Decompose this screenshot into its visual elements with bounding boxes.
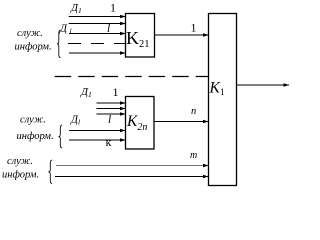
block K1 box (209, 14, 237, 186)
wire: K2n output to K1 (154, 121, 209, 123)
brace group 2 (58, 125, 62, 148)
svg-text:1: 1 (110, 1, 116, 15)
brace group 1 (57, 30, 61, 58)
svg-text:n: n (191, 106, 196, 117)
svg-text:к: к (106, 135, 112, 149)
svg-text:информ.: информ. (15, 42, 52, 53)
wire: K2n service input k (69, 139, 126, 141)
wire: dashed separator to K1 (55, 76, 209, 78)
brace group 3 (48, 160, 52, 184)
svg-text:информ.: информ. (2, 170, 39, 181)
block K2n box (126, 97, 155, 150)
svg-text:информ.: информ. (17, 131, 54, 142)
wire: K21 service input a (69, 33, 126, 35)
wire: K1 output (237, 84, 290, 86)
svg-text:1: 1 (191, 21, 197, 35)
wire: bottom service line m (gray) (56, 165, 209, 167)
wire: K2n input 1 (97, 102, 126, 104)
svg-text:l: l (108, 114, 111, 126)
wire: K21 service input b (69, 52, 126, 54)
wire: K21 input 1 (69, 16, 126, 18)
wire: K21 output to K1 (155, 34, 209, 36)
wire: bottom service line 2 (55, 176, 209, 178)
svg-text:1: 1 (113, 85, 119, 99)
wire: K21 input l (69, 23, 126, 25)
wire: K2n service input a (69, 130, 126, 132)
svg-text:m: m (190, 150, 197, 161)
svg-text:служ.: служ. (7, 156, 33, 167)
wire: K21 service input dashed (68, 43, 126, 45)
wire: K2n input l (97, 113, 126, 115)
svg-text:служ.: служ. (20, 115, 46, 126)
svg-text:служ.: служ. (17, 28, 43, 39)
wire: K2n input mid (97, 108, 126, 110)
block K21 box (126, 14, 155, 58)
